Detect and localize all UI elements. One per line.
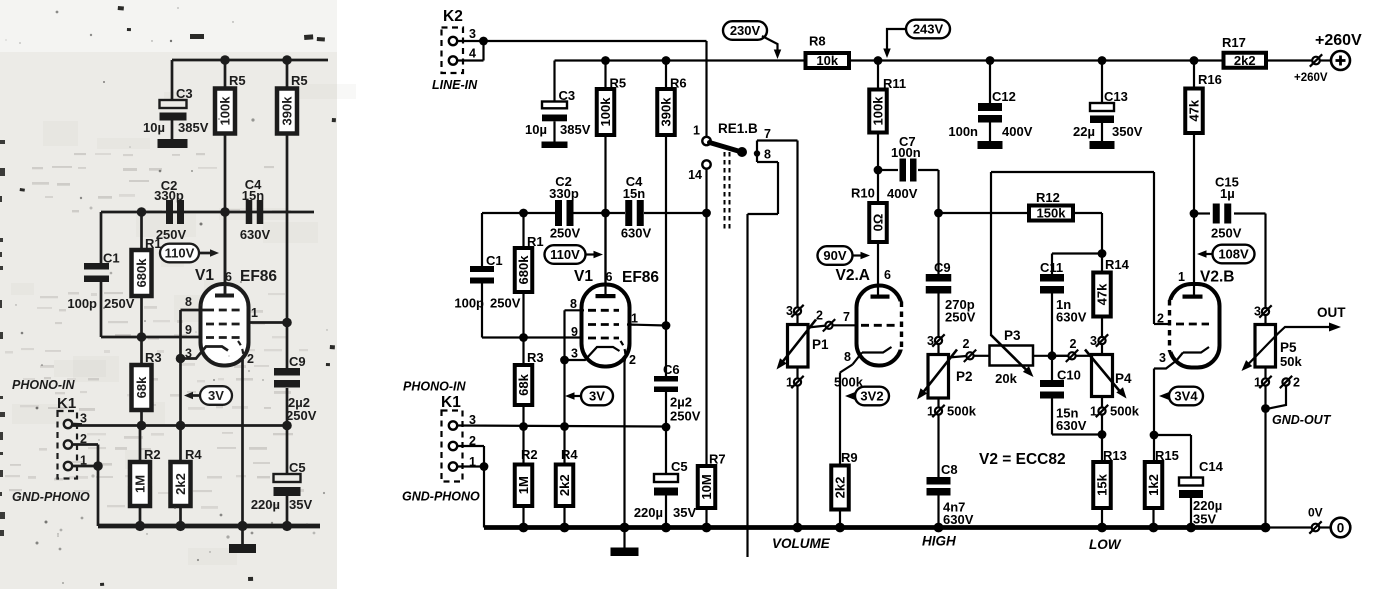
svg-text:P4: P4 bbox=[1115, 371, 1132, 386]
svg-text:K1: K1 bbox=[57, 395, 76, 412]
svg-text:1: 1 bbox=[1254, 376, 1261, 390]
svg-text:+260V: +260V bbox=[1315, 32, 1362, 49]
svg-text:C14: C14 bbox=[1199, 459, 1224, 474]
svg-text:108V: 108V bbox=[1218, 247, 1249, 262]
svg-text:4: 4 bbox=[469, 47, 476, 61]
svg-text:630V: 630V bbox=[621, 226, 652, 241]
svg-text:EF86: EF86 bbox=[240, 268, 277, 285]
svg-text:2k2: 2k2 bbox=[833, 477, 848, 499]
svg-text:+260V: +260V bbox=[1294, 72, 1328, 84]
svg-text:HIGH: HIGH bbox=[922, 534, 956, 549]
svg-text:V2 = ECC82: V2 = ECC82 bbox=[979, 451, 1066, 468]
svg-text:250V: 250V bbox=[945, 310, 976, 325]
svg-text:C10: C10 bbox=[1057, 368, 1081, 383]
svg-text:110V: 110V bbox=[165, 246, 195, 261]
svg-text:R14: R14 bbox=[1105, 257, 1130, 272]
svg-text:R3: R3 bbox=[527, 350, 544, 365]
svg-text:90V: 90V bbox=[823, 248, 846, 263]
svg-text:V2.A: V2.A bbox=[836, 267, 870, 284]
svg-text:R9: R9 bbox=[841, 450, 858, 465]
svg-text:3V4: 3V4 bbox=[1174, 389, 1198, 404]
svg-text:2: 2 bbox=[247, 352, 254, 366]
svg-text:R5: R5 bbox=[610, 76, 627, 91]
svg-text:390k: 390k bbox=[280, 96, 295, 126]
svg-text:250V: 250V bbox=[286, 408, 317, 423]
svg-text:C6: C6 bbox=[663, 362, 680, 377]
svg-text:68k: 68k bbox=[516, 373, 531, 395]
svg-text:2k2: 2k2 bbox=[173, 473, 188, 495]
svg-text:220µ: 220µ bbox=[251, 497, 280, 512]
svg-text:R1: R1 bbox=[145, 236, 162, 251]
svg-text:150k: 150k bbox=[1037, 206, 1067, 221]
svg-text:330p: 330p bbox=[154, 188, 184, 203]
svg-text:630V: 630V bbox=[943, 512, 974, 527]
svg-text:C5: C5 bbox=[671, 459, 688, 474]
svg-text:500k: 500k bbox=[1110, 404, 1140, 419]
svg-text:680k: 680k bbox=[134, 258, 149, 288]
svg-text:3V2: 3V2 bbox=[860, 389, 883, 404]
svg-text:R1: R1 bbox=[527, 234, 544, 249]
svg-text:8: 8 bbox=[764, 148, 771, 162]
svg-text:35V: 35V bbox=[673, 505, 696, 520]
svg-text:P5: P5 bbox=[1280, 340, 1297, 355]
svg-text:68k: 68k bbox=[134, 376, 149, 398]
svg-text:R13: R13 bbox=[1103, 448, 1127, 463]
svg-text:RE1.B: RE1.B bbox=[718, 121, 758, 136]
svg-text:2k2: 2k2 bbox=[1234, 53, 1256, 68]
svg-text:1: 1 bbox=[631, 312, 638, 326]
svg-text:0V: 0V bbox=[1308, 506, 1323, 520]
svg-text:0: 0 bbox=[1337, 521, 1345, 536]
svg-text:LINE-IN: LINE-IN bbox=[432, 78, 478, 92]
svg-text:GND-PHONO: GND-PHONO bbox=[402, 490, 480, 504]
svg-text:680k: 680k bbox=[516, 255, 531, 285]
svg-text:230V: 230V bbox=[730, 23, 761, 38]
svg-text:P2: P2 bbox=[956, 369, 973, 384]
svg-text:630V: 630V bbox=[240, 227, 271, 242]
svg-text:500k: 500k bbox=[947, 404, 977, 419]
svg-text:100k: 100k bbox=[871, 96, 886, 126]
svg-text:14: 14 bbox=[688, 168, 702, 182]
svg-text:C11: C11 bbox=[1040, 260, 1063, 275]
svg-text:R5: R5 bbox=[229, 73, 246, 88]
svg-text:R12: R12 bbox=[1036, 190, 1060, 205]
svg-text:LOW: LOW bbox=[1089, 537, 1122, 552]
svg-text:R10: R10 bbox=[851, 186, 875, 201]
svg-text:47k: 47k bbox=[1095, 283, 1110, 305]
svg-text:3: 3 bbox=[469, 27, 476, 41]
svg-text:3: 3 bbox=[1159, 351, 1166, 365]
svg-text:50k: 50k bbox=[1280, 354, 1302, 369]
svg-text:10M: 10M bbox=[699, 474, 714, 499]
svg-text:R11: R11 bbox=[883, 76, 906, 91]
svg-text:2: 2 bbox=[1070, 337, 1077, 351]
svg-text:330p: 330p bbox=[549, 186, 579, 201]
svg-text:R5: R5 bbox=[291, 73, 308, 88]
svg-text:385V: 385V bbox=[178, 120, 209, 135]
svg-text:1M: 1M bbox=[133, 475, 148, 493]
svg-text:C1: C1 bbox=[486, 253, 503, 268]
svg-text:C1: C1 bbox=[103, 251, 120, 266]
svg-text:6: 6 bbox=[884, 268, 891, 282]
svg-text:3: 3 bbox=[786, 304, 793, 318]
svg-text:250V: 250V bbox=[490, 296, 521, 311]
svg-text:250V: 250V bbox=[550, 226, 581, 241]
svg-text:1: 1 bbox=[251, 306, 258, 320]
svg-text:1: 1 bbox=[927, 405, 934, 419]
svg-text:PHONO-IN: PHONO-IN bbox=[403, 380, 466, 394]
svg-text:6: 6 bbox=[606, 270, 613, 284]
svg-text:250V: 250V bbox=[1211, 226, 1242, 241]
svg-text:8: 8 bbox=[570, 297, 577, 311]
svg-text:630V: 630V bbox=[1056, 418, 1087, 433]
svg-text:0Ω: 0Ω bbox=[871, 214, 886, 232]
svg-text:8: 8 bbox=[844, 350, 851, 364]
svg-text:2: 2 bbox=[80, 432, 87, 446]
svg-text:R17: R17 bbox=[1222, 35, 1246, 50]
svg-text:3: 3 bbox=[80, 412, 87, 426]
svg-text:K2: K2 bbox=[443, 8, 463, 25]
svg-text:3: 3 bbox=[185, 347, 192, 361]
svg-text:15n: 15n bbox=[242, 188, 264, 203]
svg-text:1k2: 1k2 bbox=[1146, 474, 1161, 496]
svg-text:22µ: 22µ bbox=[1073, 124, 1095, 139]
svg-text:GND-OUT: GND-OUT bbox=[1272, 413, 1332, 427]
svg-text:2: 2 bbox=[1293, 376, 1300, 390]
svg-text:100p: 100p bbox=[454, 296, 484, 311]
svg-text:1: 1 bbox=[693, 124, 700, 138]
svg-text:R16: R16 bbox=[1198, 72, 1222, 87]
svg-text:6: 6 bbox=[225, 270, 232, 284]
svg-text:385V: 385V bbox=[560, 122, 591, 137]
svg-text:1: 1 bbox=[1090, 405, 1097, 419]
svg-text:V1: V1 bbox=[574, 268, 593, 285]
svg-text:R8: R8 bbox=[809, 34, 826, 49]
svg-text:K1: K1 bbox=[441, 394, 461, 411]
svg-text:7: 7 bbox=[843, 310, 850, 324]
svg-text:10µ: 10µ bbox=[143, 120, 165, 135]
svg-text:C12: C12 bbox=[992, 89, 1016, 104]
svg-text:9: 9 bbox=[185, 323, 192, 337]
svg-text:C13: C13 bbox=[1104, 89, 1128, 104]
svg-text:10k: 10k bbox=[816, 53, 838, 68]
svg-text:3V: 3V bbox=[208, 388, 224, 403]
svg-text:15n: 15n bbox=[623, 186, 645, 201]
svg-text:3: 3 bbox=[1254, 305, 1261, 319]
svg-text:GND-PHONO: GND-PHONO bbox=[12, 490, 90, 504]
svg-text:35V: 35V bbox=[289, 497, 312, 512]
svg-text:8: 8 bbox=[185, 295, 192, 309]
svg-text:110V: 110V bbox=[550, 247, 580, 262]
svg-text:V1: V1 bbox=[195, 267, 214, 284]
svg-text:R2: R2 bbox=[144, 447, 161, 462]
svg-text:3: 3 bbox=[571, 347, 578, 361]
svg-text:3V: 3V bbox=[589, 389, 605, 404]
svg-text:390k: 390k bbox=[659, 97, 674, 127]
svg-text:400V: 400V bbox=[1002, 124, 1033, 139]
svg-text:10µ: 10µ bbox=[525, 122, 547, 137]
svg-text:400V: 400V bbox=[887, 186, 918, 201]
svg-text:220µ: 220µ bbox=[634, 505, 663, 520]
svg-text:C5: C5 bbox=[289, 460, 306, 475]
svg-text:EF86: EF86 bbox=[622, 269, 659, 286]
svg-text:9: 9 bbox=[571, 325, 578, 339]
svg-text:15k: 15k bbox=[1095, 473, 1110, 495]
svg-text:1µ: 1µ bbox=[1220, 186, 1235, 201]
svg-text:P3: P3 bbox=[1004, 328, 1021, 343]
svg-text:OUT: OUT bbox=[1317, 305, 1346, 320]
svg-text:100n: 100n bbox=[948, 124, 978, 139]
svg-text:C8: C8 bbox=[941, 462, 958, 477]
svg-text:1: 1 bbox=[786, 376, 793, 390]
svg-text:2: 2 bbox=[963, 337, 970, 351]
svg-text:1M: 1M bbox=[516, 476, 531, 494]
svg-text:35V: 35V bbox=[1193, 512, 1216, 527]
svg-text:100k: 100k bbox=[218, 96, 233, 126]
svg-text:3: 3 bbox=[1090, 334, 1097, 348]
svg-text:PHONO-IN: PHONO-IN bbox=[12, 378, 75, 392]
svg-text:C3: C3 bbox=[176, 86, 193, 101]
svg-text:7: 7 bbox=[764, 127, 771, 141]
svg-text:630V: 630V bbox=[1056, 310, 1087, 325]
svg-text:2: 2 bbox=[629, 353, 636, 367]
svg-text:R7: R7 bbox=[709, 452, 726, 467]
svg-text:R3: R3 bbox=[145, 350, 162, 365]
svg-text:2µ2: 2µ2 bbox=[670, 395, 692, 410]
svg-text:2: 2 bbox=[816, 309, 823, 323]
svg-text:V2.B: V2.B bbox=[1200, 269, 1234, 286]
svg-text:47k: 47k bbox=[1187, 99, 1202, 121]
svg-text:250V: 250V bbox=[670, 409, 701, 424]
svg-text:R6: R6 bbox=[670, 76, 687, 91]
svg-text:1: 1 bbox=[1178, 270, 1185, 284]
svg-text:3: 3 bbox=[927, 334, 934, 348]
svg-text:1: 1 bbox=[80, 454, 87, 468]
svg-text:100n: 100n bbox=[891, 145, 921, 160]
svg-text:C9: C9 bbox=[934, 260, 951, 275]
svg-text:2: 2 bbox=[1157, 312, 1164, 326]
svg-text:VOLUME: VOLUME bbox=[772, 536, 831, 551]
svg-text:C9: C9 bbox=[289, 354, 306, 369]
svg-text:2k2: 2k2 bbox=[557, 474, 572, 496]
svg-text:100k: 100k bbox=[598, 97, 613, 127]
svg-text:C3: C3 bbox=[559, 88, 576, 103]
svg-text:R15: R15 bbox=[1155, 448, 1179, 463]
svg-text:350V: 350V bbox=[1112, 124, 1143, 139]
svg-text:243V: 243V bbox=[913, 22, 944, 37]
svg-text:100p: 100p bbox=[67, 296, 97, 311]
svg-text:P1: P1 bbox=[812, 337, 829, 352]
svg-text:20k: 20k bbox=[995, 371, 1017, 386]
svg-text:R4: R4 bbox=[185, 447, 202, 462]
